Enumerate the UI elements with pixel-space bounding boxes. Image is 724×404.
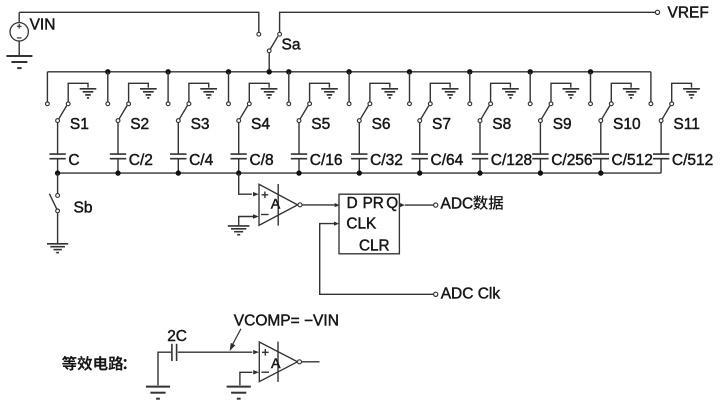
wire capacitor C/512 to bottom bus [600,159,602,173]
svg-text:S2: S2 [130,116,149,133]
wire S7 ground branch [430,83,450,102]
label C/64 [431,152,464,169]
comparator + input arrow [253,192,259,196]
wire S4 pole to capacitor [238,123,240,155]
wire S6 ground branch [370,83,390,102]
wire S1 pole to capacitor [57,123,59,155]
label C/512 [612,152,653,169]
flip-flop CLK input arrow [334,222,339,226]
wire VIN top rail [19,12,259,32]
svg-text:S3: S3 [191,116,210,133]
wire S9 ground branch [551,83,571,102]
wire top bus drop to switch S8 [469,72,471,102]
label S11 [673,116,699,133]
svg-text:Q: Q [386,195,398,212]
wire bottom bus [58,172,662,174]
ground (S9) [563,89,580,98]
wire bottom bus to switch Sb [57,173,59,194]
wire S3 pole to capacitor [177,123,179,155]
svg-text:Sb: Sb [74,200,93,217]
ground (S5) [321,89,338,98]
wire S3 ground branch [189,83,209,102]
label VCOMP= -VIN [234,313,339,330]
svg-text:CLK: CLK [346,215,377,232]
wire S9 pole to capacitor [539,123,541,155]
wire comparator output to D input [302,204,335,206]
voltage source VIN [10,12,28,55]
svg-text:C/128: C/128 [491,152,532,169]
svg-text:S7: S7 [432,116,451,133]
label S1 [70,116,89,133]
node VREF terminal [655,10,659,14]
svg-text:CLR: CLR [359,238,390,255]
svg-text:C/2: C/2 [129,152,153,169]
node ADC data terminal [434,203,438,207]
flip-flop Q output arrow [400,203,405,208]
comparator - input arrow [253,214,259,218]
ground (S4) [261,89,278,98]
switch S5 [287,102,312,123]
node ADC Clk terminal [434,292,438,296]
svg-text:ADC: ADC [441,196,474,213]
svg-text:A: A [271,196,281,212]
op-amp A2 (equivalent comparator) [259,342,297,382]
capacitor 2C [172,344,177,361]
ground (S6) [381,89,398,98]
label 据 [489,195,504,209]
svg-text:ADC Clk: ADC Clk [441,286,501,303]
svg-text:A: A [271,356,281,372]
svg-text:C/8: C/8 [250,152,274,169]
capacitor C/512 (cell 11) [653,154,669,159]
wire capacitor C/64 to bottom bus [419,159,421,173]
wire top bus drop to switch S5 [288,72,290,102]
svg-text:C: C [68,152,79,169]
wire S2 pole to capacitor [117,123,119,155]
wire top bus drop to switch S6 [348,72,350,102]
wire top bus drop to switch S10 [590,72,592,102]
wire capacitor C/16 to bottom bus [298,159,300,173]
wire top bus drop to switch S1 [46,72,48,102]
svg-text:D: D [347,195,358,212]
wire S2 ground branch [129,83,149,102]
wire S11 pole to capacitor [660,123,662,155]
wire top bus drop to switch S9 [529,72,531,102]
label C/8 [250,152,274,169]
label 2C [167,328,187,345]
svg-text:S10: S10 [613,116,641,133]
svg-text:VREF: VREF [668,5,709,22]
ground (equivalent - input) [227,387,251,399]
ground (S11) [683,89,700,98]
label C/32 [370,152,403,169]
switch S8 [468,102,493,123]
wire S4 ground branch [249,83,269,102]
label VREF [668,5,709,22]
junction dots on top bus [105,69,593,74]
wire capacitor C/8 to bottom bus [238,159,240,173]
capacitor C/2 (cell 2) [110,154,126,159]
junction dots on bottom bus [55,170,604,175]
label C/512 [672,152,713,169]
label Sb [74,200,93,217]
ground (comparator - input) [228,226,250,235]
equivalent comparator + input arrow [253,350,259,354]
switch S6 [347,102,372,123]
capacitor C/256 (cell 9) [532,154,548,159]
capacitor C/4 (cell 3) [170,154,186,159]
label 数 [473,195,488,210]
label S10 [613,116,641,133]
switch S9 [528,102,553,123]
wire equivalent comparator output [301,361,319,363]
wire Q output [405,204,434,206]
capacitor C/512 (cell 10) [593,154,610,159]
label C/16 [310,152,343,169]
wire VREF top rail [280,12,656,32]
pin label PR [363,195,384,212]
switch S3 [166,102,191,123]
ground (2C) [146,387,170,399]
wire S10 pole to capacitor [600,123,602,155]
wire bottom bus to comparator + input [239,173,252,194]
svg-text:S6: S6 [372,116,391,133]
wire capacitor C/128 to bottom bus [479,159,481,173]
ground (S2) [140,89,157,98]
capacitor C/64 (cell 7) [412,154,428,159]
svg-text:S11: S11 [673,116,699,133]
label ADC [441,196,474,213]
label C/128 [491,152,532,169]
switch S10 [589,102,614,123]
svg-text:C/64: C/64 [431,152,464,169]
pin label Q [386,195,398,212]
equivalent comparator - input arrow [253,370,259,374]
wire top bus drop to switch S3 [167,72,169,102]
label S4 [251,116,270,133]
capacitor C/32 (cell 6) [351,154,367,159]
wire S5 ground branch [310,83,330,102]
svg-text:S5: S5 [311,116,330,133]
label C/4 [189,152,214,169]
wire capacitor C/256 to bottom bus [539,159,541,173]
label S7 [432,116,451,133]
label S9 [553,116,572,133]
wire comparator - input [239,217,254,226]
svg-text:C/512: C/512 [612,152,653,169]
ground (Sb) [47,244,68,253]
switch S1 [46,102,71,123]
label S8 [492,116,511,133]
wire S7 pole to capacitor [419,123,421,155]
capacitor C/8 (cell 4) [231,154,247,159]
ground (S7) [442,89,459,98]
wire top bus [47,71,651,73]
pin label D [347,195,358,212]
annotation arrow to VCOMP node [230,329,241,351]
svg-text:S4: S4 [251,116,270,133]
wire 2C left to ground [158,352,171,385]
switch S2 [106,102,131,123]
op-amp A (comparator) [259,184,298,226]
wire Sb to ground [57,213,59,243]
wire capacitor C/2 to bottom bus [117,159,119,173]
svg-text:VCOMP= −VIN: VCOMP= −VIN [234,313,339,330]
wire equivalent comparator - input [240,372,252,385]
wire Sa to top bus [268,53,270,72]
ground (S1) [80,89,97,98]
ground (VIN source) [6,56,32,68]
svg-text:C/4: C/4 [189,152,214,169]
label C [68,152,79,169]
pin label CLR [359,238,390,255]
pin label CLK [346,215,377,232]
label S3 [191,116,210,133]
ground (S8) [502,89,519,98]
ground (S3) [200,89,217,98]
equivalent comparator output bubble [298,360,302,364]
switch Sb [49,194,59,213]
svg-text:PR: PR [363,195,384,212]
wire top bus drop to switch S4 [228,72,230,102]
wire S6 pole to capacitor [358,123,360,155]
svg-text:2C: 2C [167,328,187,345]
svg-text:C/32: C/32 [370,152,403,169]
label VIN [30,17,56,34]
switch Sa [257,32,282,52]
svg-text:C/512: C/512 [672,152,713,169]
flip-flop D input arrow [335,203,340,207]
label S5 [311,116,330,133]
label ADC Clk [441,286,501,303]
wire S8 pole to capacitor [479,123,481,155]
svg-text:C/16: C/16 [310,152,343,169]
ground (S10) [623,89,640,98]
label 等效电路： [62,356,127,371]
wire S10 ground branch [611,83,631,102]
svg-text:VIN: VIN [30,17,56,34]
svg-text:S8: S8 [492,116,511,133]
switch S11 [649,102,674,123]
wire S8 ground branch [491,83,511,102]
wire capacitor C/4 to bottom bus [177,159,179,173]
svg-text:S1: S1 [70,116,89,133]
wire S11 ground branch [672,83,692,102]
label S6 [372,116,391,133]
wire 2C to comparator + input [178,351,253,353]
wire capacitor C/512 to bottom bus [660,159,662,173]
label C/256 [551,152,592,169]
switch S4 [227,102,252,123]
comparator output bubble [298,203,302,207]
capacitor C (cell 1) [49,154,65,159]
label Sa [282,36,301,53]
flip-flop U1 box [339,194,399,254]
switch S7 [408,102,433,123]
label C/2 [129,152,153,169]
capacitor C/16 (cell 5) [291,154,307,159]
label S2 [130,116,149,133]
wire top bus drop to switch S7 [409,72,411,102]
svg-text:Sa: Sa [282,36,301,53]
wire S5 pole to capacitor [298,123,300,155]
wire capacitor C/32 to bottom bus [358,159,360,173]
svg-text:C/256: C/256 [551,152,592,169]
wire top bus drop to switch S2 [107,72,109,102]
wire capacitor C to bottom bus [57,159,59,173]
capacitor C/128 (cell 8) [472,154,488,159]
svg-text:S9: S9 [553,116,572,133]
wire S1 ground branch [68,83,88,102]
wire top bus drop to switch S11 [650,72,652,102]
wire ADC Clk to CLK input [320,224,434,295]
